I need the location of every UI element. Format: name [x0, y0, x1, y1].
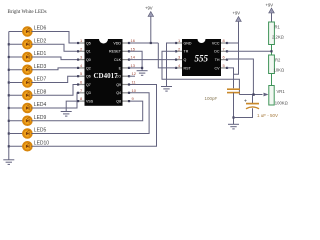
- U2 right pin names: [212, 41, 220, 70]
- svg-text:+9V: +9V: [233, 11, 241, 16]
- U1 right pin names: [109, 41, 122, 103]
- svg-text:LED10: LED10: [34, 141, 50, 147]
- wire: C2 top lead: [252, 95, 254, 104]
- VR1 wiper arrow: [264, 93, 269, 97]
- LED D9: [23, 115, 46, 125]
- LED D6: [23, 26, 46, 36]
- node: junction +9V at U1 VDD rail: [150, 42, 152, 44]
- node: junction C1/C2 ground link: [232, 116, 234, 118]
- svg-text:VR1: VR1: [277, 89, 286, 94]
- svg-text:+: +: [244, 99, 247, 105]
- wire: U2 RST up to +9V rail: [158, 43, 176, 68]
- LED D1: [23, 51, 46, 61]
- svg-text:+9V: +9V: [266, 3, 274, 8]
- svg-text:LED4: LED4: [34, 102, 47, 108]
- ground (U1 VSS): [61, 112, 72, 117]
- svg-text:10: 10: [132, 88, 137, 93]
- svg-text:Q: Q: [184, 58, 187, 62]
- wire: U1 E to ground junction: [129, 67, 142, 69]
- svg-text:CD4017: CD4017: [94, 72, 119, 80]
- ground (U2 GND): [161, 87, 172, 92]
- svg-text:CLK: CLK: [114, 58, 122, 62]
- LED D4: [23, 102, 46, 112]
- wire: LED2 to U1 pin2 Q1: [31, 44, 78, 51]
- wire: U1 RESET to ground: [129, 51, 142, 70]
- svg-text:LED9: LED9: [34, 115, 47, 121]
- svg-text:LED7: LED7: [34, 77, 47, 83]
- svg-text:LED8: LED8: [34, 90, 47, 96]
- svg-text:1 uF - 50V: 1 uF - 50V: [257, 113, 278, 118]
- U1 pin numbers: [80, 38, 137, 101]
- wire: LED6 to U1 pin1 Q5: [31, 32, 78, 44]
- svg-text:VSS: VSS: [86, 100, 94, 104]
- LED D3: [23, 64, 46, 74]
- wire: LED8 left lead: [9, 94, 23, 96]
- svg-text:R1: R1: [275, 25, 281, 30]
- wire: +9V riser at U2 and drop to CV node: [234, 22, 239, 75]
- wire: U2 GND to ground: [167, 43, 177, 87]
- wire: U1 VDD to +9V and U2 RST: [129, 42, 158, 44]
- node: bus junction dots: [8, 43, 10, 147]
- wire: LED9 left lead: [9, 120, 23, 122]
- resistor R2: [269, 55, 284, 74]
- ground (timing caps): [228, 124, 239, 129]
- wire: U2 TH down to wiper node: [227, 59, 253, 95]
- IC U1 CD4017 body: [85, 39, 123, 106]
- wire: LED10 to U1 pin11 Q9: [31, 85, 156, 147]
- wire: LED8 to U1 pin6 Q7: [31, 85, 78, 96]
- svg-text:LED5: LED5: [34, 128, 47, 134]
- wire: LED cathode bus: [8, 32, 10, 160]
- U1 left pin names: [86, 41, 94, 103]
- U2 left pin names: [184, 41, 192, 70]
- node: junction at RESET/E: [141, 67, 143, 69]
- svg-text:TR: TR: [184, 50, 189, 54]
- wire: LED1 left lead: [9, 56, 23, 58]
- svg-text:CO: CO: [116, 75, 122, 79]
- U2 pin pads: [175, 42, 228, 69]
- svg-text:Q9: Q9: [116, 83, 121, 87]
- power +9V (R1 top): [266, 3, 275, 23]
- svg-text:Q7: Q7: [86, 83, 91, 87]
- wire: LED10 left lead: [9, 145, 23, 147]
- U1 pin pads: [77, 42, 130, 102]
- wire: C1 bottom to ground: [233, 93, 235, 125]
- U2 pin numbers: [178, 38, 226, 68]
- U1 pin stubs: [78, 43, 129, 101]
- ground (LED bus): [3, 160, 14, 165]
- wire: U2 TR down and across to timing node: [162, 51, 239, 94]
- svg-text:Q2: Q2: [86, 66, 91, 70]
- svg-text:14: 14: [131, 55, 136, 60]
- power +9V (U2): [233, 11, 242, 22]
- wire: LED9 to U1 pin9 Q8: [31, 101, 142, 121]
- wire: LED7 left lead: [9, 82, 23, 84]
- svg-text:LED6: LED6: [34, 26, 47, 32]
- wire: R1 to R2 (green column): [271, 45, 273, 56]
- node: junction TH/TR/C2: [252, 93, 254, 95]
- svg-text:GND: GND: [184, 41, 192, 45]
- svg-text:13: 13: [131, 63, 136, 68]
- svg-text:LED3: LED3: [34, 64, 47, 70]
- ground (U1 RESET/E): [137, 71, 148, 76]
- wire: LED1 to U1 pin3 Q0: [31, 57, 78, 60]
- resistor R1: [269, 22, 284, 45]
- svg-text:CV: CV: [215, 66, 221, 70]
- wire: LED6 left lead: [9, 31, 23, 33]
- wire: U2 DC to R1/R2 junction: [227, 50, 272, 52]
- wire: LED5 left lead: [9, 133, 23, 135]
- wire: LED3 left lead: [9, 69, 23, 71]
- LED D7: [23, 77, 46, 87]
- svg-text:RESET: RESET: [109, 50, 122, 54]
- svg-text:LED1: LED1: [34, 51, 47, 57]
- svg-text:15: 15: [131, 46, 136, 51]
- wire: LED7 to U1 pin5 Q6: [31, 76, 78, 82]
- svg-text:Q5: Q5: [86, 41, 91, 45]
- svg-text:2.2KΩ: 2.2KΩ: [272, 35, 284, 40]
- svg-text:+9V: +9V: [145, 6, 153, 11]
- wire: LED4 left lead: [9, 107, 23, 109]
- LED D2: [23, 39, 46, 49]
- svg-text:Q1: Q1: [86, 50, 91, 54]
- svg-text:DC: DC: [214, 50, 220, 54]
- svg-text:Q0: Q0: [86, 58, 91, 62]
- wire: LED5 to U1 pin10 Q4: [31, 93, 149, 134]
- wire: U1 CO stub: [129, 75, 135, 77]
- LED D10: [23, 141, 49, 151]
- potentiometer VR1: [269, 86, 288, 106]
- svg-text:Q3: Q3: [86, 91, 91, 95]
- svg-text:Q4: Q4: [116, 91, 121, 95]
- LED D5: [23, 128, 46, 138]
- wire: ground link C1 to C2: [234, 108, 253, 117]
- capacitor C1 100pF: [227, 89, 240, 92]
- svg-text:555: 555: [195, 54, 209, 64]
- svg-text:Q6: Q6: [86, 75, 91, 79]
- svg-text:VDD: VDD: [113, 41, 121, 45]
- IC U2 555 body: [182, 39, 221, 76]
- wire: wiper node to VR1 wiper arrow: [239, 94, 262, 96]
- svg-text:RST: RST: [184, 66, 192, 70]
- svg-text:TH: TH: [215, 58, 220, 62]
- svg-text:Q8: Q8: [116, 100, 121, 104]
- wire: +9V riser at U1: [150, 17, 152, 44]
- svg-text:R2: R2: [275, 58, 281, 63]
- svg-text:16: 16: [131, 38, 136, 43]
- svg-text:LED2: LED2: [34, 39, 47, 45]
- wire: LED3 to U1 pin4 Q2: [31, 68, 78, 70]
- svg-text:10KΩ: 10KΩ: [274, 68, 285, 73]
- power +9V (U1): [145, 6, 154, 17]
- svg-text:Bright White LEDs: Bright White LEDs: [8, 10, 47, 15]
- svg-text:12: 12: [132, 71, 137, 76]
- svg-text:100KΩ: 100KΩ: [275, 101, 288, 106]
- wire: U2 VCC to +9V arrow: [227, 42, 239, 44]
- wire: U1 VSS to ground: [66, 101, 78, 111]
- capacitor C2 1uF electrolytic: [246, 104, 259, 109]
- LED D8: [23, 90, 46, 100]
- svg-text:VCC: VCC: [212, 41, 220, 45]
- wire: R2 to VR1 (green column): [271, 74, 273, 86]
- svg-text:100pF: 100pF: [205, 96, 218, 101]
- wire: LED4 to U1 pin7 Q3: [31, 93, 78, 108]
- wire: LED2 left lead: [9, 43, 23, 45]
- node: junction DC at R1/R2: [270, 50, 272, 52]
- wire: U2 CV to C1: [227, 68, 234, 88]
- wire: U1 CLK to U2 output Q: [129, 59, 176, 61]
- U2 pin stubs: [176, 43, 227, 68]
